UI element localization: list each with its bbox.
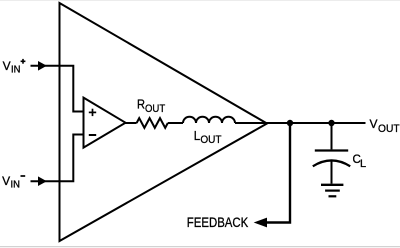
- svg-text:L: L: [360, 158, 366, 170]
- svg-text:FEEDBACK: FEEDBACK: [187, 215, 249, 230]
- svg-text:L: L: [194, 128, 201, 143]
- svg-text:IN: IN: [11, 179, 20, 191]
- svg-text:OUT: OUT: [378, 122, 400, 134]
- svg-text:OUT: OUT: [200, 134, 222, 147]
- svg-text:R: R: [137, 97, 145, 112]
- svg-text:IN: IN: [11, 64, 20, 76]
- svg-text:V: V: [370, 117, 378, 131]
- svg-text:V: V: [2, 174, 10, 188]
- svg-text:OUT: OUT: [145, 103, 166, 115]
- svg-text:V: V: [3, 59, 11, 73]
